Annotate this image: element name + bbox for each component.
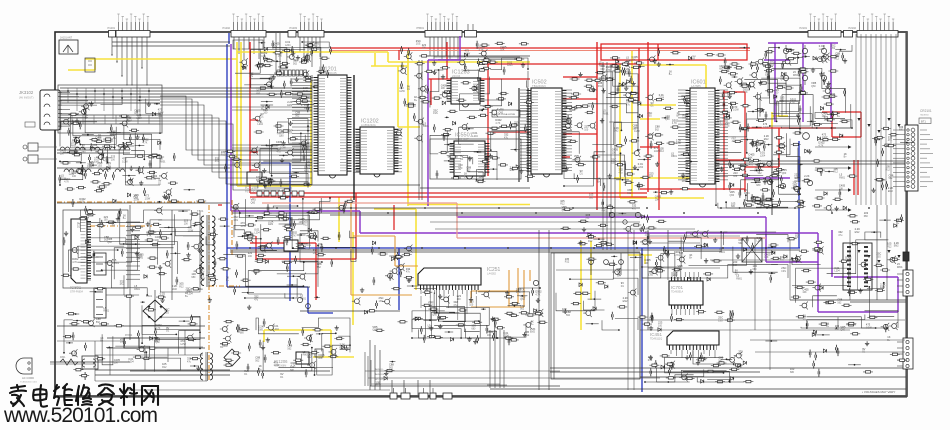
- connectors bottom edge (speaker): [390, 388, 452, 399]
- component cluster (IC1203 area): [432, 61, 534, 140]
- tuner shield box TU101: [58, 85, 162, 133]
- svg-text:562: 562: [293, 62, 298, 65]
- svg-text:100: 100: [795, 236, 800, 239]
- svg-text:P2101: P2101: [799, 26, 807, 30]
- svg-text:JK3102: JK3102: [19, 90, 34, 95]
- AC cord inlet: [16, 358, 38, 384]
- wire mesh (IC851): [234, 197, 356, 263]
- svg-text:Q60: Q60: [780, 78, 785, 81]
- wire blue IC1205: [261, 163, 290, 301]
- wire mesh (power): [68, 210, 201, 296]
- svg-text:R801: R801: [839, 176, 845, 179]
- svg-text:47u: 47u: [831, 96, 836, 99]
- svg-text:L204: L204: [472, 135, 478, 138]
- border frame bottom edge: [55, 395, 907, 397]
- svg-text:Q60: Q60: [574, 158, 579, 161]
- component cluster (IC451 below): [648, 350, 754, 384]
- component cluster (top left of IC1203): [401, 39, 429, 61]
- svg-text:F801: F801: [60, 356, 66, 359]
- svg-text:47u: 47u: [504, 137, 509, 140]
- IC IC502 video chroma: [529, 80, 564, 178]
- svg-text:680: 680: [191, 276, 196, 279]
- svg-text:R801: R801: [423, 125, 429, 128]
- wire mesh (IC601 right): [715, 69, 801, 209]
- svg-text:Q60: Q60: [665, 118, 670, 121]
- wire mesh (RGB): [760, 45, 853, 129]
- svg-text:4.7K: 4.7K: [535, 293, 540, 296]
- svg-text:IC451: IC451: [650, 332, 663, 337]
- svg-text:100: 100: [184, 223, 189, 226]
- wire blue top stub: [228, 33, 230, 44]
- component cluster (audio bottom): [258, 319, 349, 379]
- svg-text:1/2W: 1/2W: [180, 343, 186, 346]
- wire red top IC502 feed: [483, 64, 640, 176]
- svg-text:47u: 47u: [120, 283, 125, 286]
- svg-text:M52340SP: M52340SP: [455, 137, 469, 141]
- svg-text:R12: R12: [179, 286, 184, 289]
- IC IC5501 comb filter: [452, 133, 487, 180]
- wire mesh (IC251): [411, 287, 541, 339]
- svg-text:4.7K: 4.7K: [64, 181, 69, 184]
- svg-text:100: 100: [278, 55, 283, 58]
- svg-text:4.7K: 4.7K: [72, 261, 77, 264]
- watermark url text: [3, 404, 158, 427]
- svg-text:EM2: EM2: [623, 300, 629, 303]
- svg-text:4.7K: 4.7K: [606, 69, 611, 72]
- svg-text:10K: 10K: [632, 59, 637, 62]
- svg-text:1SS: 1SS: [87, 166, 92, 169]
- component cluster (mid 560-640 y215-250): [561, 213, 642, 247]
- wire yellow around IC1201: [237, 42, 311, 186]
- component cluster (mid right under RGB): [750, 132, 857, 212]
- IC IC1203 eeprom: [449, 70, 482, 108]
- wire mesh (subpower): [206, 205, 319, 299]
- wire yellow small mid-right: [628, 255, 652, 264]
- component cluster (IC601 right dense): [720, 58, 773, 209]
- svg-text:TA08650: TA08650: [920, 114, 929, 117]
- fuse F801 + line filter LF801: [60, 356, 98, 369]
- svg-text:L204: L204: [128, 361, 134, 364]
- svg-text:10K: 10K: [682, 117, 687, 120]
- section box power sub: [63, 210, 128, 288]
- IC IC851 regulator: [284, 240, 312, 251]
- wire yellow IF (left): [68, 59, 237, 70]
- transistor Q801: [87, 209, 92, 214]
- IC IC2101 driver array: [843, 243, 872, 290]
- wire staircase fan tuner-IC1201: [160, 96, 312, 190]
- wire yellow h204: [408, 204, 530, 206]
- svg-text:P5501: P5501: [416, 26, 424, 30]
- svg-text:4.7K: 4.7K: [648, 274, 653, 277]
- svg-text:24C04: 24C04: [452, 74, 461, 78]
- svg-text:10K: 10K: [655, 198, 660, 201]
- wire orange IC251 cluster: [471, 268, 530, 307]
- svg-text:47u: 47u: [774, 104, 779, 107]
- connector P1201 (tuner top): [107, 14, 150, 37]
- svg-text:R801: R801: [599, 64, 605, 67]
- wire tuner verticals: [67, 88, 150, 124]
- component cluster (power primary): [61, 206, 206, 303]
- component cluster (x560-640 y60-90): [578, 55, 644, 94]
- svg-text:R12: R12: [162, 366, 167, 369]
- component cluster (audio left of IC251): [352, 241, 419, 332]
- component cluster (south right sparse): [765, 330, 907, 377]
- wire mesh (IC451): [644, 350, 744, 383]
- svg-text:Q60: Q60: [279, 134, 284, 137]
- svg-text:562: 562: [96, 321, 101, 324]
- svg-text:680: 680: [290, 369, 295, 372]
- svg-text:PST573D: PST573D: [245, 191, 256, 194]
- svg-text:680: 680: [899, 129, 904, 132]
- svg-text:R12: R12: [588, 240, 593, 243]
- wire red +B top: [330, 48, 750, 60]
- connector P702: [897, 270, 913, 296]
- wire yellow IC1202 area: [371, 51, 420, 206]
- connectors P801/P803: [94, 253, 106, 318]
- svg-text:100: 100: [104, 219, 109, 222]
- svg-text:R12: R12: [560, 203, 565, 206]
- svg-text:1SS: 1SS: [379, 300, 384, 303]
- wire yellow long top: [237, 52, 530, 66]
- svg-text:1SS: 1SS: [186, 290, 191, 293]
- bridge rectifier D801: [143, 294, 167, 322]
- watermark char 4 (xiu): [76, 385, 92, 405]
- svg-text:EM2: EM2: [673, 274, 679, 277]
- wire stubs IC601 pins: [678, 90, 728, 180]
- trap L101: [85, 58, 95, 72]
- svg-text:LA4282: LA4282: [487, 272, 497, 276]
- svg-text:EM2: EM2: [855, 231, 861, 234]
- component cluster (between power and audio): [220, 305, 264, 376]
- wire mesh (IC502 right): [563, 64, 639, 187]
- wire mesh (IF): [258, 119, 309, 188]
- svg-text:1/2W: 1/2W: [822, 136, 828, 139]
- svg-text:1SS: 1SS: [611, 162, 616, 165]
- component cluster (east-south purple area): [790, 230, 903, 332]
- svg-text:R801: R801: [160, 161, 166, 164]
- wire bundle from P5501: [430, 37, 520, 60]
- svg-text:4.7K: 4.7K: [495, 122, 500, 125]
- svg-text:1SS: 1SS: [416, 43, 421, 46]
- svg-text:47u: 47u: [619, 171, 624, 174]
- wire stubs IC502 pins: [520, 90, 572, 171]
- transistor Q601 + drive arrows: [803, 133, 852, 212]
- svg-text:562: 562: [718, 360, 723, 363]
- svg-text:562: 562: [627, 192, 632, 195]
- wire IC251 pin drops: [421, 296, 476, 320]
- component cluster (right margin pins): [848, 211, 904, 234]
- component cluster (power secondary): [63, 301, 201, 380]
- component cluster (under P1203): [264, 42, 331, 89]
- wire verticals below IC251 right: [487, 330, 507, 388]
- component cluster (RGB drive top right): [763, 43, 850, 125]
- svg-text:100: 100: [733, 175, 738, 178]
- wire blue long horizontal: [227, 141, 800, 392]
- wire bundle from P1202: [234, 33, 320, 75]
- transistors Q551/Q552 deflection box: [556, 260, 638, 270]
- svg-text:R801: R801: [736, 277, 742, 280]
- component cluster (IF coils row2): [159, 150, 242, 201]
- svg-text:AUDIO L: AUDIO L: [375, 368, 385, 371]
- svg-text:R12: R12: [565, 261, 570, 264]
- svg-text:TC86004117-001: TC86004117-001: [20, 382, 38, 384]
- svg-text:R801: R801: [304, 107, 310, 110]
- svg-text:R12: R12: [887, 246, 892, 249]
- svg-text:1/2W: 1/2W: [733, 109, 739, 112]
- component cluster (IC701 area): [640, 230, 797, 283]
- svg-text:R12: R12: [659, 150, 664, 153]
- svg-text:100: 100: [469, 303, 474, 306]
- svg-text:10K: 10K: [318, 357, 323, 360]
- svg-text:4.7K: 4.7K: [479, 49, 484, 52]
- svg-text:100: 100: [263, 112, 268, 115]
- svg-text:100: 100: [731, 139, 736, 142]
- svg-text:R12: R12: [886, 169, 891, 172]
- svg-text:P1201: P1201: [107, 26, 115, 30]
- svg-text:1/2W: 1/2W: [145, 197, 151, 200]
- svg-text:562: 562: [389, 366, 394, 369]
- svg-text:• VOLTAGES MAY VARY: • VOLTAGES MAY VARY: [862, 390, 895, 394]
- svg-text:1SS: 1SS: [781, 270, 786, 273]
- svg-text:562: 562: [585, 217, 590, 220]
- component cluster (IC851 area): [231, 197, 355, 267]
- svg-text:L204: L204: [638, 166, 644, 169]
- component cluster (IC502 right): [563, 60, 645, 191]
- svg-text:R801: R801: [682, 180, 688, 183]
- wire mesh (power2): [63, 305, 201, 371]
- svg-text:Q60: Q60: [782, 172, 787, 175]
- svg-text:MUTE: MUTE: [375, 384, 382, 386]
- wire IC701 stubs: [672, 272, 698, 315]
- wire audio outputs to speaker: [365, 352, 660, 386]
- watermark char 3 (wei): [54, 384, 72, 405]
- svg-text:SP OUT: SP OUT: [375, 379, 384, 381]
- connector headphone jacks: [23, 143, 57, 163]
- wire mesh (IC1203/5501): [430, 57, 529, 181]
- svg-text:1SS: 1SS: [97, 165, 102, 168]
- connector P2101: [799, 14, 852, 37]
- component cluster (below tuner): [72, 186, 206, 207]
- component cluster (top centre caps): [457, 41, 529, 72]
- component cluster (inside red box top): [610, 47, 750, 76]
- svg-text:LA7685: LA7685: [691, 84, 701, 88]
- svg-text:100: 100: [422, 47, 427, 50]
- wire red box top-right: [601, 44, 747, 101]
- svg-text:100: 100: [658, 324, 663, 327]
- wire mesh (deflect): [556, 260, 638, 331]
- svg-text:562: 562: [758, 172, 763, 175]
- transistor Q851: [297, 297, 310, 308]
- svg-text:1/2W: 1/2W: [188, 229, 194, 232]
- component cluster (bottom mid labels): [376, 361, 396, 388]
- svg-text:TDA6111Q: TDA6111Q: [650, 338, 662, 341]
- svg-text:1SS: 1SS: [233, 219, 238, 222]
- svg-text:EM2: EM2: [530, 331, 536, 334]
- svg-text:Q60: Q60: [499, 111, 504, 114]
- svg-text:L204: L204: [834, 270, 840, 273]
- IC IC601 jungle: [688, 80, 717, 188]
- wire red bottom mid: [218, 205, 394, 230]
- svg-text:680: 680: [756, 184, 761, 187]
- wire yellow audio section: [264, 197, 354, 357]
- svg-text:4.7K: 4.7K: [291, 235, 296, 238]
- svg-text:R12: R12: [598, 85, 603, 88]
- svg-text:562: 562: [837, 301, 842, 304]
- wire mesh (top mid): [235, 41, 329, 89]
- svg-text:562: 562: [633, 127, 638, 130]
- svg-text:4.7K: 4.7K: [743, 91, 748, 94]
- svg-text:BT1: BT1: [921, 119, 926, 123]
- watermark char 5 (zi): [98, 385, 114, 406]
- svg-text:R801: R801: [103, 310, 109, 313]
- svg-text:L204: L204: [285, 44, 291, 47]
- svg-text:1/2W: 1/2W: [399, 90, 405, 93]
- svg-text:562: 562: [566, 314, 571, 317]
- wire yellow right of IC502: [620, 51, 706, 198]
- wire red IC851 area: [250, 193, 356, 300]
- svg-text:100: 100: [72, 175, 77, 178]
- component cluster (IC5501 below): [436, 144, 535, 183]
- wire red IC502 area: [489, 42, 597, 210]
- wire blue main left: [227, 44, 333, 313]
- component cluster (above IC1201): [239, 54, 313, 98]
- svg-text:1SS: 1SS: [876, 256, 881, 259]
- transistor Q252: [533, 280, 538, 285]
- svg-text:P1202: P1202: [222, 26, 230, 30]
- watermark char 2 (dian): [33, 385, 47, 407]
- svg-text:562: 562: [255, 359, 260, 362]
- svg-text:100: 100: [111, 159, 116, 162]
- border frame: [55, 32, 907, 396]
- IC IC451 RGB amp: [650, 331, 719, 358]
- IC IC1205 reset: [245, 172, 262, 194]
- connector P5501: [416, 14, 462, 37]
- svg-text:10K: 10K: [500, 49, 505, 52]
- svg-text:100: 100: [514, 124, 519, 127]
- svg-text:EM2: EM2: [764, 138, 770, 141]
- svg-text:47u: 47u: [254, 298, 259, 301]
- IF coils L151-L158: [60, 147, 130, 172]
- svg-text:47u: 47u: [888, 139, 893, 142]
- svg-text:Q60: Q60: [730, 194, 735, 197]
- svg-text:Q60: Q60: [520, 298, 525, 301]
- wire mesh (purple SE): [791, 232, 898, 329]
- svg-text:10K: 10K: [764, 256, 769, 259]
- wire stubs IC801 pins: [126, 222, 140, 279]
- wire bus verticals: [130, 60, 668, 395]
- svg-text:4.7K: 4.7K: [261, 55, 266, 58]
- label FODR PWB: [492, 110, 520, 117]
- svg-text:47u: 47u: [749, 164, 754, 167]
- svg-text:100: 100: [457, 298, 462, 301]
- svg-text:EM2: EM2: [894, 245, 900, 248]
- connector JK3102: [19, 90, 97, 130]
- svg-text:L204: L204: [273, 328, 279, 331]
- svg-text:47u: 47u: [215, 160, 220, 163]
- wire purple RGB cluster: [745, 43, 838, 178]
- wire orange audio/IC251: [351, 197, 418, 295]
- svg-text:CR2101: CR2101: [920, 109, 932, 113]
- component cluster (IC601 left): [644, 93, 698, 202]
- wire yellow mid verticals: [374, 209, 591, 330]
- connector P802: [897, 338, 913, 369]
- svg-text:L204: L204: [642, 243, 648, 246]
- wire mesh (tuner): [59, 97, 161, 186]
- svg-text:R801: R801: [897, 266, 903, 269]
- IC IC1201 microcontroller: [316, 67, 349, 179]
- wire red IC601 area: [640, 42, 836, 210]
- wire orange dash barrier: [57, 200, 240, 380]
- IC IC801 power regulator: [70, 219, 89, 294]
- component cluster (transistor pair mid): [598, 206, 666, 233]
- svg-text:10K: 10K: [487, 334, 492, 337]
- wire mid band extras: [430, 62, 695, 250]
- svg-text:R12: R12: [833, 171, 838, 174]
- svg-text:562: 562: [317, 266, 322, 269]
- svg-text:4.7K: 4.7K: [147, 235, 152, 238]
- bridge D802: [222, 345, 240, 366]
- wire purple main run: [231, 44, 898, 312]
- svg-text:562: 562: [520, 308, 525, 311]
- svg-text:10K: 10K: [441, 87, 446, 90]
- wire bus horizontals: [50, 42, 906, 389]
- svg-text:R801: R801: [303, 354, 309, 357]
- svg-text:Q60: Q60: [134, 197, 139, 200]
- connector CR2101 CRT socket: [893, 109, 933, 191]
- component cluster (left of IC601 gap): [615, 68, 651, 191]
- relay RY801: [124, 334, 139, 348]
- svg-text:RY801: RY801: [125, 334, 133, 337]
- svg-text:680: 680: [647, 137, 652, 140]
- svg-text:Q60: Q60: [811, 85, 816, 88]
- svg-text:680: 680: [589, 196, 594, 199]
- component cluster (between IC1202/1203): [394, 61, 458, 143]
- wire red IC1203 area: [428, 42, 530, 105]
- svg-text:L204: L204: [507, 64, 513, 67]
- svg-text:47u: 47u: [838, 234, 843, 237]
- watermark char 7 (wang): [142, 386, 158, 405]
- svg-text:4.7K: 4.7K: [672, 122, 677, 125]
- component cluster (IC251 below): [413, 287, 548, 345]
- svg-text:R801: R801: [793, 74, 799, 77]
- component cluster (IC701 below): [638, 310, 735, 331]
- wire mesh (audio): [256, 318, 351, 376]
- svg-text:100: 100: [584, 128, 589, 131]
- svg-text:1/2W: 1/2W: [763, 126, 769, 129]
- svg-text:562: 562: [295, 114, 300, 117]
- svg-text:1SS: 1SS: [647, 115, 652, 118]
- component cluster (tuner bottom row): [59, 134, 166, 201]
- svg-text:L204: L204: [760, 154, 766, 157]
- wire yellow extra h178: [614, 177, 690, 179]
- svg-text:4.7K: 4.7K: [142, 141, 147, 144]
- svg-text:www.520101.com: www.520101.com: [3, 404, 158, 427]
- wire mesh (IC701): [641, 231, 788, 279]
- wire verticals left deflection: [628, 230, 634, 390]
- component cluster (CRT labels): [871, 125, 913, 193]
- svg-text:R801: R801: [71, 144, 77, 147]
- IC IC701 vertical deflection: [669, 279, 703, 307]
- svg-text:L204: L204: [659, 97, 665, 100]
- section box deflection: [551, 253, 640, 379]
- svg-text:TDA8351A: TDA8351A: [671, 291, 684, 294]
- wire fan IC1201 left pins: [232, 79, 312, 172]
- svg-text:EM2: EM2: [172, 288, 178, 291]
- svg-text:IC701: IC701: [671, 285, 684, 290]
- note voltages: [862, 390, 895, 394]
- border frame right edge: [905, 32, 907, 396]
- svg-text:AUDIO R: AUDIO R: [375, 373, 385, 376]
